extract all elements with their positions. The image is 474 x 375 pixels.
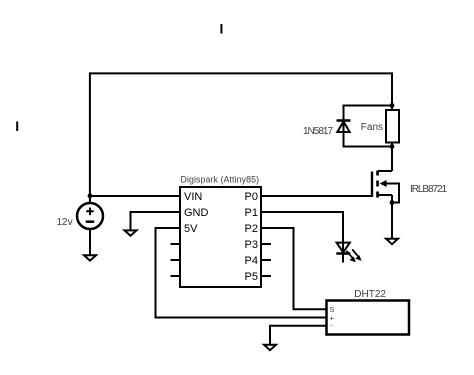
svg-text:P2: P2 [245, 223, 258, 235]
svg-text:P5: P5 [245, 271, 258, 283]
svg-text:I: I [15, 118, 19, 134]
svg-text:12v: 12v [57, 217, 73, 228]
svg-text:IRLB8721: IRLB8721 [410, 184, 447, 195]
svg-text:Digispark (Attiny85): Digispark (Attiny85) [181, 175, 260, 185]
svg-text:I: I [220, 20, 224, 36]
svg-text:GND: GND [184, 207, 209, 219]
svg-text:P1: P1 [245, 207, 258, 219]
svg-text:DHT22: DHT22 [354, 289, 386, 300]
svg-text:P4: P4 [245, 255, 258, 267]
svg-text:Fans: Fans [361, 122, 383, 133]
svg-text:5V: 5V [184, 223, 198, 235]
svg-text:P0: P0 [245, 191, 258, 203]
svg-text:1N5817: 1N5817 [303, 126, 333, 137]
svg-text:P3: P3 [245, 239, 258, 251]
svg-text:VIN: VIN [184, 191, 202, 203]
